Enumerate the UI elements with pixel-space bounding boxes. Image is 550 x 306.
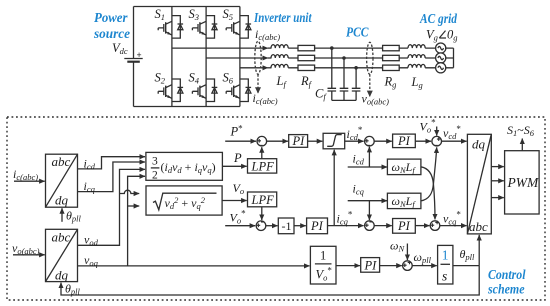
wire inverter leg 3 [239,7,241,107]
wire vo(abc) to abc-dq [13,254,45,256]
svg-text:+: + [137,50,142,60]
block PI 1 [289,134,308,148]
svg-text:P: P [233,151,242,165]
transform block abc-dq voltages [46,229,78,282]
svg-text:PWM: PWM [507,175,539,190]
svg-text:s: s [442,269,447,284]
wire Vo to LPF2 [222,200,247,202]
svg-text:source: source [93,26,130,41]
svg-text:abc: abc [469,219,488,234]
wire dc bottom rail [134,106,240,108]
inductor Lg phase a [408,45,425,48]
svg-text:dq: dq [55,268,69,283]
wire ic(abc) to abc-dq [14,180,45,182]
summing node icd [365,136,375,146]
wire phase b [206,57,268,59]
wire PI4 to sum vcq [415,225,429,227]
svg-text:1: 1 [442,248,449,263]
wire sum to PI 4 [374,225,392,227]
transistor S1 [155,7,184,38]
wire P to LPF [222,165,246,167]
svg-text:PI: PI [397,134,411,148]
node phase b tap [342,56,346,60]
voltage probe vo(abc) [367,42,373,96]
wire theta pll out [453,265,479,267]
summing node P [257,136,267,146]
svg-text:scheme: scheme [487,282,524,297]
block PI 3 [307,218,328,234]
block limiter [323,133,345,149]
wire theta to dq-abc [478,235,480,266]
wire theta return [61,266,479,295]
wire icq* [328,225,364,227]
transistor S3 [189,7,218,38]
svg-text:AC grid: AC grid [419,11,457,26]
wire -1 to PI3 [294,225,306,227]
wire grid bus [445,48,453,68]
wire 1/Vo* to PI5 [336,265,360,267]
wire phase c [240,67,268,69]
svg-text:-1: -1 [282,219,292,233]
source Vg phase c [436,63,446,73]
summing node pll [403,261,413,271]
transistor S2 [155,71,184,102]
svg-text:abc: abc [52,230,71,245]
wire PI5 to sum pll [380,265,402,267]
inductor Lf phase b [271,55,288,58]
transform block dq-abc [467,134,491,234]
inductor Lf phase a [271,45,288,48]
wire dq-abc to PWM 1 [491,166,504,168]
svg-text:PI: PI [292,134,306,148]
source Vg phase b [436,53,446,63]
wire inverter leg 1 [171,7,173,107]
svg-text:PI: PI [310,219,324,233]
svg-text:3: 3 [152,156,158,168]
svg-text:2: 2 [152,170,158,182]
summing node Vo [256,221,266,231]
inductor Lg phase b [408,55,425,58]
wire sum to PI 1 [267,140,288,142]
wire sum to -1 [266,225,278,227]
wire LPF up to sum [261,147,263,159]
svg-text:PI: PI [364,259,378,273]
wire icd stub [348,166,387,168]
wire Lg to sources [425,48,436,68]
block LPF power [248,159,277,174]
summing node vcd [432,136,442,146]
wire dq-abc to PWM 2 [491,180,504,182]
capacitor Cf phase a [331,48,333,100]
svg-text:Inverter unit: Inverter unit [253,10,312,25]
wire icq stub [348,200,387,202]
resistor Rg phase a [383,45,400,50]
wire icd* [345,140,364,142]
capacitor Cf phase c [355,68,357,101]
wire icq [78,162,146,192]
block -1 [278,218,294,234]
svg-text:dq: dq [55,193,69,208]
wire icd [78,157,146,169]
wire wpll to 1/s [412,265,437,267]
wire theta to abc-dq currents [61,208,63,222]
block PI 4 [393,219,416,234]
wire LPF2 down to sum [261,207,263,220]
wire Vo* down [436,127,438,136]
capacitor Cf phase b [343,58,345,100]
resistor Rg phase b [383,55,400,60]
wire icq branch down [368,201,370,220]
wire coil to Rf [288,48,298,68]
block power calc [146,152,223,181]
resistor Rf phase b [298,55,315,60]
node phase c tap [354,66,358,70]
svg-text:PI: PI [397,219,411,233]
wire Rf to Rg [315,48,383,68]
inductor Lf phase c [271,64,288,67]
block LPF voltage [248,192,277,207]
svg-text:dq: dq [472,137,486,152]
svg-text:LPF: LPF [251,160,275,174]
wire PI to limiter [308,140,323,142]
node phase a tap [330,46,334,50]
wire phase a [172,47,268,49]
transistor S6 [223,71,252,102]
wire vod branch with hop [120,190,140,193]
svg-text:LPF: LPF [251,193,275,207]
wire dq-abc to PWM 3 [491,197,504,199]
control scheme dotted border [7,117,545,300]
wire icd branch up [368,147,370,167]
wire dc top rail [134,6,240,8]
transform block abc-dq currents [46,154,78,208]
summing node vcq [430,221,440,231]
wire wN down [406,244,408,261]
wire PI2 to sum vcd [415,140,431,142]
current probe ic(abc) [255,41,261,93]
transistor S4 [189,71,218,102]
block PI 2 [393,134,416,148]
wire vod [78,169,146,245]
wire cross coupling bottom to vcd [421,147,437,201]
svg-text:Power: Power [94,10,128,25]
resistor Rf phase c [298,65,315,70]
block wNLf top [387,159,421,175]
wire voq [78,265,310,267]
transistor S5 [223,7,252,38]
summing node icq [365,221,375,231]
svg-text:1: 1 [320,249,326,263]
wire voq riser [128,176,145,266]
svg-text:abc: abc [52,154,71,169]
wire Rg to Lg [399,48,408,68]
source Vg phase a [436,43,446,53]
block 1/s [438,245,453,284]
svg-text:PCC: PCC [346,25,369,40]
wire voq branch [128,205,140,207]
wire vcq* to dq-abc [440,225,467,227]
block PI 5 [361,258,380,273]
resistor Rg phase c [383,65,400,70]
resistor Rf phase a [298,45,315,50]
block 1/Vo* [310,246,336,284]
wire P* input [225,140,256,142]
wire capacitor bus [332,99,356,101]
wire limiter feed from icq* [333,150,335,226]
block voltage magnitude [146,186,222,215]
wire inverter leg 2 [205,7,207,107]
svg-text:Control: Control [488,267,526,282]
wire PWM output S1-S6 [521,139,523,151]
block PWM [505,151,539,214]
block wNLf bottom [387,193,421,209]
wire Vo* input [225,225,255,227]
wire cross coupling top to vcq [421,167,435,220]
inductor Lg phase c [408,64,425,67]
wire sum to PI 2 [374,140,392,142]
wire vcd* to dq-abc [442,140,467,142]
